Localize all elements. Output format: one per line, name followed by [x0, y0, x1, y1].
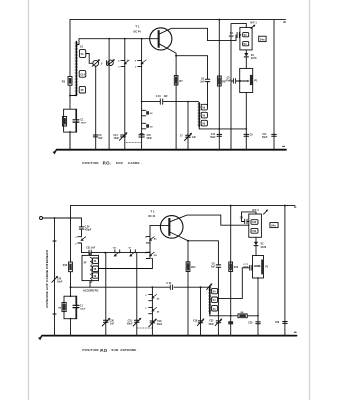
ground arrow bottom — [39, 336, 42, 339]
transistor T1 bottom — [160, 216, 183, 239]
wire C18 column — [200, 287, 202, 335]
svg-text:50nF: 50nF — [127, 324, 133, 326]
switch contact K4 — [142, 123, 146, 129]
svg-text:50nF: 50nF — [262, 137, 268, 139]
svg-text:ANTENNE .: ANTENNE . — [120, 348, 138, 352]
svg-text:ANTENNE ANT CADRE INTERIEUR: ANTENNE ANT CADRE INTERIEUR — [45, 250, 49, 308]
node base line — [79, 38, 158, 40]
switch contact K10 — [149, 294, 153, 300]
svg-text:0A79: 0A79 — [261, 246, 267, 249]
capacitor C5 — [231, 80, 240, 82]
switch column bottom — [149, 225, 151, 258]
switch contact K3 — [142, 110, 146, 116]
wire P1 to bus — [245, 93, 247, 150]
svg-text:1nF: 1nF — [110, 324, 115, 326]
resistor R10 — [69, 262, 73, 272]
tap S9 box — [92, 273, 98, 278]
wire C13 column — [187, 102, 189, 150]
wire coil bottom — [70, 95, 76, 97]
value box 24n bottom — [270, 223, 278, 228]
svg-text:47nF: 47nF — [225, 80, 231, 83]
svg-text:C10: C10 — [147, 135, 152, 137]
antenna terminal — [40, 217, 43, 220]
tap S0 box — [201, 120, 207, 126]
wire base bottom — [150, 224, 168, 226]
resistor R4 — [238, 314, 247, 318]
wire coil stubs — [89, 253, 91, 288]
tap S4e box — [212, 306, 218, 311]
ground arrow — [54, 150, 57, 153]
bus junction dots top — [69, 149, 275, 151]
cadre frame box bottom — [64, 296, 77, 319]
tap S6b box — [201, 112, 207, 118]
switch contact K5 — [78, 237, 82, 243]
wire column 2 — [108, 39, 110, 150]
svg-text:POSITION: POSITION — [82, 348, 98, 352]
wire C20 column — [81, 218, 83, 253]
trimmer C14 — [121, 135, 126, 137]
wire R8 column — [218, 20, 220, 150]
wire tap S8 to switch — [98, 259, 152, 269]
svg-text:50nF: 50nF — [209, 324, 215, 326]
tap C14 box — [79, 71, 86, 78]
switch contact K2 — [138, 60, 142, 66]
svg-text:C30: C30 — [110, 320, 115, 322]
tap S4d box — [212, 297, 218, 302]
switch contact K9 — [146, 252, 150, 258]
cadre frame box — [64, 109, 77, 132]
coil L1 bar — [75, 42, 77, 96]
svg-text:C 20: C 20 — [85, 227, 91, 229]
switch contact K6 — [115, 250, 120, 253]
coil L1 hatch — [75, 43, 78, 94]
supply rail bottom circuit — [71, 205, 296, 207]
coil L3 winding — [90, 257, 92, 282]
svg-text:M: M — [129, 247, 131, 249]
coil L4 bar — [209, 286, 211, 314]
capacitor C1 bottom — [75, 296, 77, 319]
capacitor C10 — [139, 135, 144, 137]
svg-text:C31: C31 — [128, 320, 133, 322]
svg-text:C42: C42 — [57, 277, 62, 280]
wire R12 column — [230, 206, 232, 336]
svg-text:4nF: 4nF — [164, 95, 169, 98]
svg-text:C26: C26 — [248, 322, 253, 324]
diode D1 — [245, 50, 247, 53]
capacitor C4 bottom — [245, 219, 247, 224]
svg-text:24n: 24n — [260, 37, 265, 41]
capacitor C11 — [272, 134, 277, 136]
capacitor C9 — [244, 134, 249, 136]
tick near bus right — [283, 145, 285, 147]
svg-text:18nF: 18nF — [81, 123, 87, 125]
capacitor C24 — [170, 285, 172, 290]
potentiometer P1 bottom — [253, 256, 264, 279]
capacitor C4 — [237, 32, 239, 37]
svg-text:P.O: P.O — [100, 348, 108, 353]
svg-text:P.O.: P.O. — [103, 161, 111, 166]
wire C4 branch bottom — [242, 212, 250, 222]
wire cadre to bus — [69, 131, 71, 149]
capacitor C26 — [256, 322, 260, 324]
capacitor C17 — [250, 265, 252, 270]
wire tap L4 to C17 — [218, 268, 250, 299]
wire coil bottom to P1 column — [210, 314, 258, 316]
svg-text:5nF: 5nF — [200, 82, 205, 84]
node line m — [71, 286, 210, 288]
resistor R9 — [62, 302, 66, 311]
ground bus — [57, 149, 287, 151]
wire antenna — [43, 217, 82, 219]
tap S4 box — [79, 50, 85, 58]
diode D1 bottom — [255, 237, 257, 242]
wire emitter cap column — [217, 241, 219, 336]
svg-text:POSITION: POSITION — [82, 161, 98, 165]
capacitor C16 — [160, 99, 162, 104]
trimmer CV1 — [93, 60, 99, 66]
wire right border bottom — [284, 206, 286, 336]
dashed wire — [126, 142, 142, 144]
capacitor C20 — [79, 227, 83, 229]
resistor R3 — [68, 77, 72, 86]
svg-text:22pF: 22pF — [229, 36, 235, 38]
svg-text:C22: C22 — [209, 321, 214, 323]
wire C5 column — [231, 24, 246, 150]
capacitor C12 — [217, 134, 222, 136]
svg-text:0A79: 0A79 — [251, 57, 257, 60]
bus junction dots bottom — [54, 335, 286, 337]
tap S8 box — [92, 266, 98, 271]
svg-text:6nF: 6nF — [99, 138, 104, 140]
trimmer C30 — [104, 320, 109, 322]
wire left border — [69, 20, 71, 150]
tap S6 box — [79, 86, 85, 93]
wire right border — [273, 20, 275, 150]
resistor R12 — [229, 262, 233, 272]
svg-text:C18: C18 — [193, 321, 198, 323]
tap S4c box — [212, 288, 218, 293]
wire left border R10 column — [70, 206, 72, 336]
capacitor C8 — [205, 79, 210, 81]
wire collector bottom — [170, 215, 249, 225]
switch contact K1 — [121, 60, 125, 66]
capacitor C21 — [89, 250, 91, 255]
svg-text:ACCORD PO: ACCORD PO — [83, 290, 98, 293]
svg-text:C14: C14 — [80, 72, 85, 76]
tick near bus right bottom — [294, 331, 296, 333]
svg-text:R12: R12 — [234, 266, 239, 269]
svg-text:C11: C11 — [262, 134, 267, 136]
svg-text:10nF: 10nF — [57, 282, 63, 284]
node line C16 — [142, 101, 199, 103]
resistor R7 — [175, 56, 177, 150]
svg-text:AC: AC — [154, 237, 158, 240]
tuning arrow MF1 bottom — [264, 210, 268, 214]
svg-text:OC 44: OC 44 — [133, 30, 141, 33]
svg-text:C23: C23 — [275, 322, 280, 324]
svg-text:GO: GO — [154, 255, 158, 257]
capacitor C22 — [216, 321, 221, 323]
svg-text:C 16: C 16 — [156, 96, 162, 98]
svg-text:470pF: 470pF — [85, 229, 92, 232]
svg-text:47nF: 47nF — [243, 265, 249, 268]
tap S4 box bottom — [92, 258, 98, 263]
wire collector — [160, 28, 236, 40]
svg-text:CADRE .: CADRE . — [128, 161, 142, 165]
capacitor C13 — [186, 135, 191, 137]
wire emitter bottom — [170, 232, 218, 240]
capacitor C18 — [198, 321, 203, 323]
resistor R11 — [187, 241, 189, 336]
wire base corner drop — [77, 39, 79, 45]
tick supply rail end — [284, 21, 286, 23]
tuning arrow L4 — [207, 284, 212, 289]
wire column 4 — [141, 39, 143, 150]
capacitor C23 — [283, 322, 288, 324]
tap S6a box — [201, 104, 207, 110]
ground bus bottom — [42, 335, 297, 337]
switch contact K11 — [149, 307, 153, 313]
resistor R1 cadre — [62, 117, 66, 127]
potentiometer P1 — [240, 68, 253, 92]
svg-text:GO: GO — [113, 247, 117, 249]
svg-text:M F 1: M F 1 — [250, 22, 257, 25]
coil L2 bar — [198, 103, 200, 127]
coil L3 box — [82, 255, 99, 280]
svg-text:510: 510 — [252, 221, 257, 224]
capacitor C8 bottom — [216, 265, 221, 267]
svg-text:C21 5nF: C21 5nF — [86, 248, 96, 250]
wire antenna column — [54, 218, 56, 336]
wire C31 column — [136, 253, 138, 336]
value box 24n — [259, 36, 266, 41]
wire column 3 — [124, 39, 126, 150]
tuning arrow MF1 — [251, 25, 254, 28]
svg-text:510: 510 — [252, 230, 257, 233]
capacitor C3 — [93, 135, 97, 137]
resistor R8 — [217, 76, 221, 86]
trimmer C31 — [135, 320, 140, 322]
page left edge — [28, 0, 30, 400]
dashed wire bottom — [137, 327, 153, 329]
svg-text:R10: R10 — [63, 264, 68, 267]
svg-text:50nF: 50nF — [210, 137, 216, 139]
svg-text:50nF: 50nF — [147, 138, 153, 140]
transistor T1 — [150, 28, 172, 50]
wire trimmer to bus — [95, 66, 97, 150]
svg-text:OC 44: OC 44 — [148, 215, 156, 218]
node line k — [82, 252, 151, 254]
wire emitter — [160, 44, 208, 56]
svg-text:C 24: C 24 — [166, 282, 172, 285]
page right edge — [309, 0, 311, 400]
svg-text:T 1: T 1 — [135, 25, 140, 29]
svg-text:C19: C19 — [157, 321, 162, 323]
svg-text:18nF: 18nF — [80, 309, 86, 311]
supply rail top — [70, 19, 286, 21]
capacitor C1 — [75, 109, 77, 132]
svg-text:24n: 24n — [271, 224, 276, 228]
trimmer C42 — [52, 277, 58, 283]
trimmer C19 — [150, 321, 155, 323]
switch contact K7 — [131, 250, 136, 253]
wire emitter to coil — [207, 56, 209, 107]
svg-text:C14: C14 — [113, 134, 118, 137]
wire C30 column — [105, 253, 107, 336]
capacitor C25 — [228, 321, 233, 324]
svg-text:SUR: SUR — [116, 161, 124, 165]
wire coil bottom to right — [199, 127, 246, 129]
switch contact K8 — [146, 237, 150, 243]
svg-text:1nF: 1nF — [192, 137, 197, 139]
svg-text:R11: R11 — [191, 266, 196, 269]
wire tap S4 to trimmer — [86, 54, 93, 64]
wire P1 bottom to bus — [257, 278, 259, 336]
svg-text:T 1: T 1 — [150, 210, 155, 214]
svg-text:SUR: SUR — [111, 348, 119, 352]
trimmer CV2 — [108, 60, 113, 65]
svg-text:15nF: 15nF — [114, 138, 120, 140]
svg-text:C12: C12 — [211, 134, 216, 136]
svg-text:5nF: 5nF — [211, 266, 216, 268]
tick supply end — [294, 206, 296, 208]
svg-text:50nF: 50nF — [157, 324, 163, 326]
